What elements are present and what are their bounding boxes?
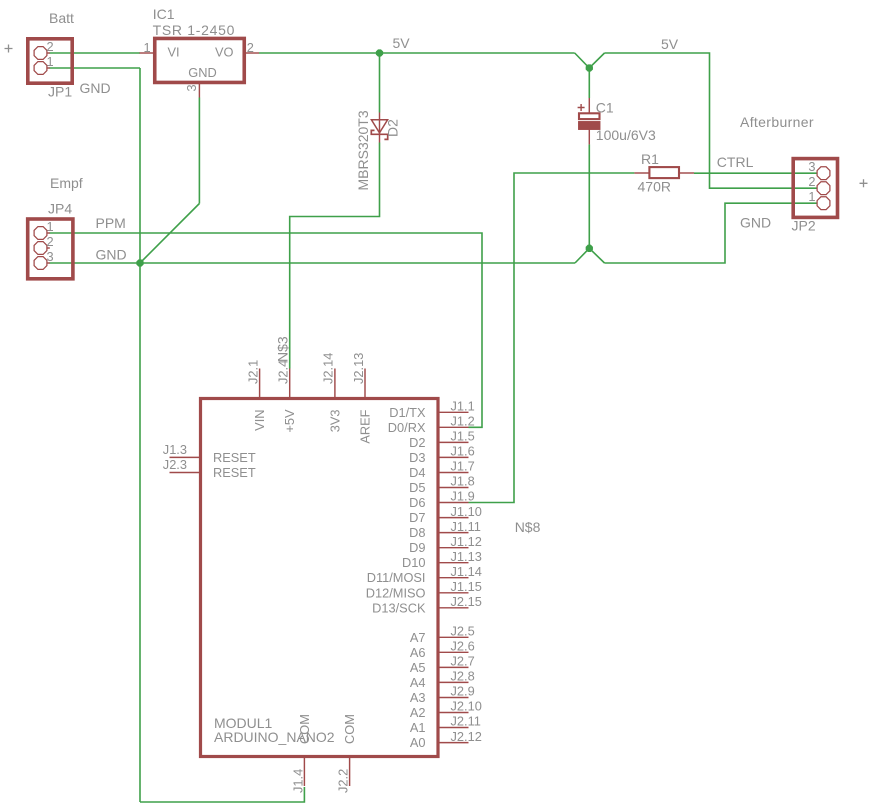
wire net GND : JP1 pin1 right xyxy=(50,67,141,69)
svg-text:J2.3: J2.3 xyxy=(163,457,187,472)
pin stub J1.10 (right) xyxy=(439,517,469,519)
connector JP4 (Empf) xyxy=(28,219,73,279)
svg-text:+5V: +5V xyxy=(282,409,297,433)
svg-text:J1.2: J1.2 xyxy=(451,414,475,429)
connector JP2 (Afterburner) xyxy=(793,159,837,218)
svg-text:3: 3 xyxy=(184,84,199,91)
wire net GND : C1 bottom vertical xyxy=(588,144,590,248)
pin stub J1.1 (right) xyxy=(439,411,469,413)
pin stub J2.8 (right) xyxy=(439,681,469,683)
svg-text:J1.12: J1.12 xyxy=(451,534,482,549)
svg-text:J1.3: J1.3 xyxy=(163,442,187,457)
connector JP1 (Batt) xyxy=(28,39,72,83)
svg-text:3: 3 xyxy=(808,159,815,174)
svg-text:J2.1: J2.1 xyxy=(245,360,260,384)
wire net GND : V-jog up to C1 junction xyxy=(575,248,605,263)
svg-text:TSR 1-2450: TSR 1-2450 xyxy=(153,22,235,38)
pin stub J1.4 (bottom, COM) xyxy=(303,758,305,786)
svg-text:J1.6: J1.6 xyxy=(451,444,475,459)
svg-text:J2.15: J2.15 xyxy=(451,594,482,609)
pin stub J2.2 (bottom, COM) xyxy=(349,758,351,786)
pin stub J2.15 (right) xyxy=(439,607,469,609)
svg-text:J2.4: J2.4 xyxy=(276,360,291,384)
svg-text:J2.12: J2.12 xyxy=(451,729,482,744)
svg-text:J1.8: J1.8 xyxy=(451,474,475,489)
pin stub J2.13 (top) xyxy=(364,369,366,398)
pin stub J1.12 (right) xyxy=(439,547,469,549)
pin stub J1.9 (right) xyxy=(439,502,469,504)
pin stub J1.2 (right) xyxy=(439,426,469,428)
wire net N$8 / PPM : JP4 pin1 to Arduino D0/RX J1.2 xyxy=(50,233,483,427)
wire net GND : IC1 GND pin vertical xyxy=(198,98,200,204)
svg-text:J2.14: J2.14 xyxy=(321,353,336,384)
pin stub J2.4 (top) xyxy=(289,369,291,398)
svg-text:IC1: IC1 xyxy=(153,6,175,22)
svg-text:GND: GND xyxy=(740,215,771,231)
svg-text:J1.14: J1.14 xyxy=(451,564,482,579)
svg-text:J1.1: J1.1 xyxy=(451,399,475,414)
wire net CTRL : R1 to JP2 pin3 xyxy=(694,172,817,174)
svg-text:100u/6V3: 100u/6V3 xyxy=(596,127,656,143)
svg-text:C1: C1 xyxy=(596,100,614,116)
svg-text:J1.15: J1.15 xyxy=(451,579,482,594)
pin pad JP4-1 xyxy=(34,227,47,240)
svg-text:JP2: JP2 xyxy=(792,218,816,234)
svg-text:2: 2 xyxy=(247,40,254,55)
svg-text:3V3: 3V3 xyxy=(327,410,342,433)
wire net GND : JP4 pin3 run to right xyxy=(50,262,576,264)
pin stub J2.9 (right) xyxy=(439,697,469,699)
svg-text:J1.7: J1.7 xyxy=(451,459,475,474)
svg-text:D13/SCK: D13/SCK xyxy=(372,600,426,615)
svg-text:GND: GND xyxy=(96,247,127,263)
junction 5V at C1 top (589,68) xyxy=(586,65,592,71)
voltage regulator IC1 TSR 1-2450 xyxy=(155,38,245,82)
svg-text:5V: 5V xyxy=(661,36,679,52)
pin stub J1.5 (right) xyxy=(439,441,469,443)
svg-text:D8: D8 xyxy=(409,525,425,540)
polarity mark + (JP2) xyxy=(860,179,868,187)
junction GND at C1 bottom (589,248) xyxy=(586,245,592,251)
svg-text:RESET: RESET xyxy=(213,465,256,480)
svg-text:5V: 5V xyxy=(393,35,411,51)
svg-text:R1: R1 xyxy=(641,151,659,167)
wire net N$3 : D2 cathode down, left, down to Arduino +5V pin J2.4 xyxy=(290,143,380,369)
pin stub J2.10 (right) xyxy=(439,712,469,714)
svg-text:MBRS320T3: MBRS320T3 xyxy=(355,110,371,190)
module MODUL1 ARDUINO_NANO2 xyxy=(201,399,439,757)
svg-text:J2.13: J2.13 xyxy=(351,353,366,384)
wire net 5V : run to right edge and down to JP2 pin2 xyxy=(605,53,817,188)
svg-text:RESET: RESET xyxy=(213,450,256,465)
pin pad JP4-3 xyxy=(34,257,47,270)
pin stub J2.3 (left, RESET) xyxy=(170,472,200,474)
svg-text:ARDUINO_NANO2: ARDUINO_NANO2 xyxy=(214,729,335,745)
pin pad JP1-1 xyxy=(34,62,47,75)
svg-text:PPM: PPM xyxy=(96,215,126,231)
svg-text:A6: A6 xyxy=(410,645,426,660)
svg-text:J1.9: J1.9 xyxy=(451,489,475,504)
svg-text:J2.11: J2.11 xyxy=(451,714,481,729)
svg-text:A4: A4 xyxy=(410,675,426,690)
svg-text:J2.2: J2.2 xyxy=(336,769,351,793)
capacitor C1 100u/6V3 (polarized) xyxy=(588,98,590,113)
wire net 5V : IC1 VO to junction and across xyxy=(259,52,575,54)
svg-text:N$3: N$3 xyxy=(275,336,291,362)
svg-text:A1: A1 xyxy=(410,720,426,735)
pin stub J1.6 (right) xyxy=(439,456,469,458)
svg-text:CTRL: CTRL xyxy=(717,154,754,170)
pin stub J2.5 (right) xyxy=(439,636,469,638)
svg-text:A3: A3 xyxy=(410,690,426,705)
svg-text:D5: D5 xyxy=(409,480,425,495)
wire net GND : run to JP2 pin1 xyxy=(605,203,817,263)
pin stub J2.11 (right) xyxy=(439,727,469,729)
svg-text:470R: 470R xyxy=(638,179,671,195)
pin stub J1.8 (right) xyxy=(439,487,469,489)
svg-text:J2.10: J2.10 xyxy=(451,699,482,714)
pin stub J1.7 (right) xyxy=(439,472,469,474)
svg-text:VO: VO xyxy=(215,45,234,60)
svg-text:J2.5: J2.5 xyxy=(451,624,475,639)
svg-text:Empf: Empf xyxy=(50,175,83,191)
wire net CTRL : Arduino D6 J1.9 to R1 xyxy=(469,173,635,503)
polarity mark + (Batt) xyxy=(5,45,13,53)
svg-text:2: 2 xyxy=(808,174,815,189)
wire net 5V : C1 top vertical xyxy=(588,68,590,98)
wire net GND : diagonal from IC1 GND to junction xyxy=(140,204,199,264)
pin stub J1.14 (right) xyxy=(439,577,469,579)
svg-text:JP1: JP1 xyxy=(48,84,72,100)
svg-text:A7: A7 xyxy=(410,630,426,645)
svg-text:J2.9: J2.9 xyxy=(451,684,475,699)
svg-text:A0: A0 xyxy=(410,735,426,750)
svg-text:A5: A5 xyxy=(410,660,426,675)
svg-text:D2: D2 xyxy=(385,119,401,137)
svg-text:1: 1 xyxy=(808,189,815,204)
svg-text:J1.4: J1.4 xyxy=(290,769,305,793)
svg-text:AREF: AREF xyxy=(358,409,373,443)
svg-text:D4: D4 xyxy=(409,465,425,480)
svg-text:2: 2 xyxy=(47,234,54,249)
pin stub J2.14 (top) xyxy=(334,369,336,398)
svg-text:D12/MISO: D12/MISO xyxy=(366,585,426,600)
svg-text:COM: COM xyxy=(342,714,357,744)
pin pad JP2-2 xyxy=(817,182,830,195)
svg-text:D1/TX: D1/TX xyxy=(389,405,426,420)
wire net 5V : V-jog down to C1 top junction xyxy=(575,53,605,68)
pin stub J2.6 (right) xyxy=(439,651,469,653)
junction 5V at (379.5,53) xyxy=(376,50,382,56)
wire net GND : vertical at x=140 xyxy=(139,68,141,802)
svg-text:A2: A2 xyxy=(410,705,426,720)
svg-text:J1.11: J1.11 xyxy=(451,519,481,534)
pin stub J1.15 (right) xyxy=(439,592,469,594)
svg-text:3: 3 xyxy=(47,249,54,264)
pin pad JP1-2 xyxy=(34,47,47,60)
wire net N$3 : junction down to D2 anode xyxy=(379,53,381,113)
pin 3 stub (IC1 GND) xyxy=(198,84,200,98)
svg-text:J2.6: J2.6 xyxy=(451,639,475,654)
svg-text:J1.5: J1.5 xyxy=(451,429,475,444)
pin stub J1.3 (left, RESET) xyxy=(170,456,200,458)
svg-text:1: 1 xyxy=(144,40,151,55)
diode D2 MBRS320T3 (schottky) xyxy=(379,113,381,143)
svg-text:1: 1 xyxy=(47,219,54,234)
svg-text:VIN: VIN xyxy=(252,410,267,431)
resistor R1 470R xyxy=(634,172,649,174)
svg-text:D9: D9 xyxy=(409,540,425,555)
pin stub J1.13 (right) xyxy=(439,562,469,564)
svg-text:J1.13: J1.13 xyxy=(451,549,482,564)
svg-text:COM: COM xyxy=(297,714,312,744)
pin 2 stub (IC1 VO) xyxy=(246,52,259,54)
svg-text:2: 2 xyxy=(47,39,54,54)
svg-text:JP4: JP4 xyxy=(48,201,72,217)
svg-text:D3: D3 xyxy=(409,450,425,465)
svg-text:D6: D6 xyxy=(409,495,425,510)
svg-text:N$8: N$8 xyxy=(515,519,541,535)
pin stub J2.7 (right) xyxy=(439,666,469,668)
svg-text:J2.7: J2.7 xyxy=(451,654,475,669)
polarity mark + (C1) xyxy=(578,104,585,111)
svg-text:D2: D2 xyxy=(409,435,425,450)
pin stub J1.11 (right) xyxy=(439,532,469,534)
svg-text:GND: GND xyxy=(188,65,216,80)
svg-text:GND: GND xyxy=(80,80,111,96)
pin stub J2.12 (right) xyxy=(439,742,469,744)
junction GND at (140,263) xyxy=(137,260,143,266)
pin pad JP4-2 xyxy=(34,242,47,255)
svg-text:D0/RX: D0/RX xyxy=(388,420,426,435)
svg-text:Batt: Batt xyxy=(49,10,74,26)
pin pad JP2-3 xyxy=(817,167,830,180)
pin pad JP2-1 xyxy=(817,197,830,210)
pin 1 stub (IC1 VI) xyxy=(140,52,154,54)
svg-text:Afterburner: Afterburner xyxy=(740,114,814,130)
svg-text:VI: VI xyxy=(168,45,180,60)
svg-text:D10: D10 xyxy=(402,555,425,570)
wire net GND : bottom run to J1.4 COM xyxy=(140,787,304,802)
svg-text:D7: D7 xyxy=(409,510,425,525)
svg-text:J2.8: J2.8 xyxy=(451,669,475,684)
pin stub J2.1 (top) xyxy=(259,369,261,398)
svg-text:J1.10: J1.10 xyxy=(451,504,482,519)
svg-text:1: 1 xyxy=(47,54,54,69)
wire net VBATT+ : JP1 pin2 to IC1 VI xyxy=(50,52,141,54)
svg-text:D11/MOSI: D11/MOSI xyxy=(367,570,426,585)
